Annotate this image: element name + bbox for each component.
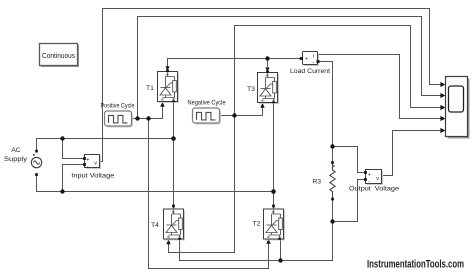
wire Output Voltage - tap [333, 180, 366, 222]
svg-text:R3: R3 [312, 178, 321, 185]
svg-text:T1: T1 [146, 85, 154, 92]
node junction AC+/InputVoltage+ [60, 136, 64, 140]
node arrow scope input 1 [440, 82, 445, 87]
node arrow scope input 2 [440, 93, 445, 98]
svg-text:T3: T3 [247, 86, 255, 93]
svg-text:-: - [368, 179, 370, 185]
node junction AC- / right leg [271, 189, 276, 194]
wire Input Voltage + tap [63, 139, 85, 159]
thyristor T2 [253, 205, 285, 241]
svg-text:AC: AC [11, 147, 21, 154]
node junction Negative Cycle [232, 113, 236, 117]
node junction Positive Cycle to T2 gate [146, 116, 150, 120]
wire Positive Cycle output to T1 gate [132, 106, 163, 119]
powergui block Continuous [40, 44, 80, 68]
node junction Positive Cycle to scope [135, 116, 139, 120]
wire Input Voltage - tap [63, 165, 85, 192]
wire Output Voltage v output to Scope input 5 [382, 131, 441, 176]
wire AC source top terminal to bridge left leg (node A rail) [37, 139, 174, 151]
svg-text:Output Voltage: Output Voltage [349, 185, 399, 192]
thyristor T3 [247, 67, 279, 104]
node arrow T2 gate [266, 239, 270, 244]
svg-text:Negative Cycle: Negative Cycle [188, 100, 226, 107]
caption InstrumentationTools.com [367, 259, 464, 271]
scope [446, 77, 470, 139]
wire T2 anode drop to load negative rail [280, 239, 282, 261]
node arrow T3 gate [260, 103, 264, 108]
svg-text:i: i [313, 54, 314, 60]
wire Output Voltage + tap [333, 147, 366, 173]
pulse generator Negative Cycle [188, 100, 226, 125]
wire Load Current - to R3 top node [320, 62, 333, 163]
node junction load rail at T2 [278, 258, 282, 262]
pulse generator Positive Cycle [101, 103, 135, 128]
svg-text:-: - [313, 60, 315, 66]
svg-text:+: + [368, 172, 371, 178]
resistor R3 [312, 161, 335, 200]
AC source [4, 147, 42, 176]
wire right leg T3 cathode to T2 anode [273, 103, 275, 210]
svg-text:v: v [94, 160, 97, 166]
svg-text:InstrumentationTools.com: InstrumentationTools.com [367, 259, 464, 271]
wire left leg T1 cathode to T4 anode [173, 102, 175, 210]
current measurement Load Current [290, 52, 330, 75]
node arrow T1 gate [160, 102, 164, 107]
svg-text:Supply: Supply [4, 156, 28, 163]
wire R3 bottom to load negative rail [180, 199, 333, 261]
svg-text:v: v [376, 176, 379, 182]
wire Negative Cycle to Scope input 3 [235, 26, 441, 116]
node junction top rail at T3 [265, 56, 269, 60]
node arrow scope input 3 [440, 105, 445, 110]
node junction R3 top / Output Voltage + [330, 144, 334, 148]
svg-text:Input Voltage: Input Voltage [71, 172, 114, 179]
svg-text:+: + [305, 57, 308, 63]
node junction R3 bottom / Output Voltage - [330, 219, 334, 223]
wire Negative Cycle to T4 gate [169, 116, 235, 253]
svg-text:-: - [87, 163, 89, 169]
node junction AC+ / left leg [171, 136, 176, 141]
svg-text:Positive Cycle: Positive Cycle [101, 103, 135, 110]
wire Load Current i output to Scope input 4 [318, 55, 441, 119]
wire Positive Cycle to Scope input 2 [138, 17, 441, 119]
thyristor T1 [146, 66, 179, 103]
thyristor T4 [151, 205, 185, 241]
wire Positive Cycle to T2 gate [149, 119, 269, 269]
svg-text:T2: T2 [253, 221, 261, 228]
wire bridge top rail T1/T3 to Load Current + [168, 59, 301, 68]
voltage measurement Input Voltage [71, 155, 114, 180]
svg-text:Load Current: Load Current [290, 68, 330, 75]
node junction AC- / InputVoltage- [60, 189, 64, 193]
voltage measurement Output Voltage [349, 170, 399, 193]
node arrow T4 gate [166, 239, 170, 244]
wire Negative Cycle output to T3 gate [220, 107, 263, 116]
svg-text:Continuous: Continuous [42, 53, 75, 60]
node arrow scope input 4 [440, 116, 445, 121]
wire AC source bottom terminal to bridge right leg (node B rail) [37, 175, 274, 192]
wire Input Voltage v output to Scope input 1 [100, 9, 441, 162]
node arrow scope input 5 [440, 128, 445, 133]
svg-text:T4: T4 [151, 222, 159, 229]
